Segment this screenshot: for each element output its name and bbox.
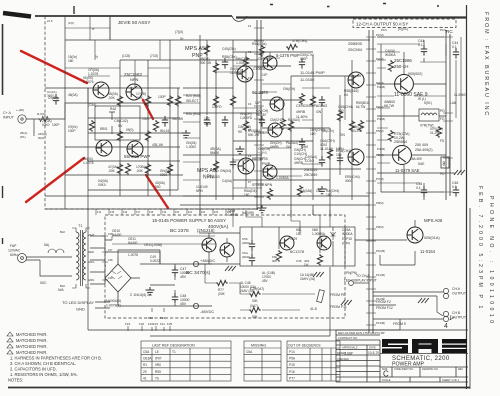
svg-text:C5A: C5A [143, 350, 150, 354]
resistor R35 [267, 188, 272, 200]
svg-text:R1: R1 [143, 363, 147, 367]
board edge connector column P (amp board) [366, 30, 376, 333]
svg-text:P9(M): P9(M) [376, 225, 384, 229]
svg-text:P4(M): P4(M) [376, 105, 384, 109]
wire cap column [174, 264, 176, 306]
svg-text:93,2W: 93,2W [352, 129, 361, 133]
transformer secondary taps [90, 236, 160, 284]
svg-text:11-60%: 11-60% [258, 131, 269, 135]
svg-text:F20: F20 [139, 322, 145, 326]
wire bottom rail y192 [381, 191, 444, 193]
svg-text:MPS A06: MPS A06 [197, 168, 219, 174]
svg-text:C: C [383, 370, 389, 379]
extra wire stubs power box top [233, 210, 330, 227]
svg-text:C+ A: C+ A [3, 111, 11, 115]
transistor Q11 [348, 72, 364, 88]
svg-text:55A708 PWP: 55A708 PWP [124, 154, 150, 159]
svg-text:FD: FD [440, 139, 445, 143]
wire rail y76 [291, 75, 361, 77]
resistor R11 [153, 120, 158, 132]
top tick above border [73, 6, 75, 14]
svg-text:6C 2378: 6C 2378 [252, 90, 269, 95]
svg-text:11-0053: 11-0053 [208, 175, 220, 179]
svg-text:DRAWING NO.: DRAWING NO. [422, 368, 439, 371]
svg-text:F16: F16 [123, 211, 128, 214]
svg-text:SCALE: SCALE [382, 378, 391, 382]
transistor Q2 [126, 84, 142, 100]
svg-text:96-657: 96-657 [256, 113, 267, 117]
svg-text:24AV (2A): 24AV (2A) [240, 289, 254, 293]
svg-text:P8(M): P8(M) [376, 201, 384, 205]
resistor R29 [297, 185, 302, 197]
resistor R32 [175, 95, 180, 107]
wire led display node [354, 282, 369, 284]
capacitor C46 right [453, 186, 459, 197]
resistor R9 [145, 163, 150, 175]
speaker load 8 ohm [441, 157, 449, 168]
svg-text:P14: P14 [289, 350, 295, 354]
svg-text:P1(M): P1(M) [376, 33, 384, 37]
svg-text:L5: L5 [155, 350, 159, 354]
svg-text:(C5A): (C5A) [88, 103, 96, 107]
resistor R39 [213, 62, 218, 74]
svg-text:MPS A06: MPS A06 [424, 218, 443, 223]
svg-text:NOTES:: NOTES: [8, 378, 23, 383]
svg-text:PD: PD [440, 172, 445, 176]
wires taps into supply [105, 240, 160, 278]
svg-text:100P: 100P [158, 95, 167, 99]
extra center rows [216, 52, 345, 188]
capacitor C21 [299, 138, 305, 149]
svg-text:N/A: N/A [58, 288, 64, 292]
svg-text:F18: F18 [149, 211, 154, 214]
svg-text:F14: F14 [97, 211, 102, 214]
board edge connector column F (drive board) [254, 20, 264, 210]
svg-text:1-0085A: 1-0085A [253, 67, 266, 71]
wire to Q17 [355, 220, 415, 265]
resistor R79 horizontal [249, 307, 261, 312]
svg-text:CM(CH2): CM(CH2) [270, 118, 283, 122]
resistor R51 [317, 254, 322, 266]
svg-text:100P: 100P [300, 57, 307, 61]
svg-text:29: 29 [143, 370, 147, 374]
svg-text:CODE IDENT NO.: CODE IDENT NO. [394, 368, 414, 371]
svg-text:68,7W: 68,7W [384, 104, 395, 108]
svg-text:R55: R55 [155, 370, 161, 374]
svg-text:MISSING: MISSING [251, 344, 266, 348]
wire vertical x313 [312, 55, 314, 200]
svg-text:P5A: P5A [289, 357, 296, 361]
wire LED display stub [95, 302, 110, 308]
svg-text:LAST REF DESIGNATION: LAST REF DESIGNATION [152, 344, 195, 348]
svg-text:10-5-70: 10-5-70 [368, 351, 379, 355]
wire -46 rail [118, 298, 212, 306]
resistor R31 [125, 163, 130, 175]
zener D5 [109, 112, 115, 134]
svg-text:+-(40): +-(40) [16, 108, 24, 112]
capacitor C11 [259, 116, 265, 127]
svg-text:(00K: (00K [218, 292, 226, 296]
svg-text:GN: GN [316, 110, 322, 114]
svg-text:R-0(0): R-0(0) [37, 112, 46, 116]
svg-text:F10: F10 [148, 322, 154, 326]
svg-text:005(01A): 005(01A) [424, 236, 440, 240]
wire from f2 [369, 304, 396, 306]
svg-text:CONTRACT NO.: CONTRACT NO. [338, 336, 358, 340]
table: missing [244, 341, 281, 381]
svg-text:CH A: CH A [452, 287, 461, 291]
resistor R10 [167, 163, 172, 175]
svg-text:04: 04 [344, 93, 348, 97]
svg-text:4R(C7x): 4R(C7x) [322, 129, 334, 133]
svg-text:F4: F4 [248, 102, 252, 106]
bridge rectifier BR1 [105, 258, 140, 298]
svg-text:0H5: 0H5 [302, 145, 308, 149]
svg-text:0.0022: 0.0022 [150, 259, 160, 263]
svg-text:4000: 4000 [345, 179, 352, 183]
svg-text:+46VDC: +46VDC [200, 258, 215, 263]
svg-text:CO1O: CO1O [305, 159, 315, 163]
fax edge dash left lower [2, 186, 4, 244]
svg-text:POWER AMP: POWER AMP [392, 362, 425, 368]
capacitor C48 [172, 293, 178, 304]
svg-text:60Hz: 60Hz [10, 253, 18, 257]
svg-text:RC: RC [446, 29, 453, 34]
svg-text:8R01: 8R01 [100, 127, 108, 131]
svg-text:P13(M): P13(M) [376, 321, 385, 325]
resistor R6 [145, 95, 150, 107]
resistor R45 [388, 60, 393, 72]
svg-text:W400A: W400A [385, 53, 396, 57]
svg-text:1. HARNESS IN PARENTHESES ARE: 1. HARNESS IN PARENTHESES ARE FOR CH B. [10, 356, 102, 361]
capacitor C45 [421, 186, 427, 197]
red mark 4 [146, 175, 168, 208]
svg-text:S-1378 NPN: S-1378 NPN [252, 183, 273, 187]
svg-text:GN: GN [286, 145, 291, 149]
svg-text:NPN: NPN [336, 147, 344, 151]
svg-text:0000: 0000 [160, 173, 167, 177]
svg-text:4HRB: 4HRB [270, 145, 279, 149]
svg-text:(0000: (0000 [242, 241, 250, 245]
svg-text:0.1: 0.1 [452, 45, 457, 49]
wire rail y113 [183, 112, 262, 114]
svg-text:0R0: 0R0 [155, 363, 161, 367]
wire vertical x207 [206, 40, 208, 115]
svg-text:R55(C5x): R55(C5x) [252, 42, 267, 46]
svg-text:0r: 0r [92, 27, 95, 31]
resistor R26 [327, 148, 332, 160]
svg-text:900 1W: 900 1W [200, 61, 211, 65]
transistor Q13 output top [395, 75, 414, 94]
svg-text:GND: GND [76, 307, 85, 312]
svg-text:(7)(0): (7)(0) [175, 30, 183, 34]
resistor R12 [89, 120, 94, 132]
svg-text:360V: 360V [47, 94, 54, 98]
svg-text:MATCHED PAIR.: MATCHED PAIR. [16, 338, 47, 343]
svg-text:0529: 0529 [290, 237, 297, 241]
wire vertical x216 [215, 60, 217, 200]
wire rail y161 [88, 160, 180, 162]
wire row y84 [377, 83, 446, 85]
power supply dashed outline [105, 215, 345, 318]
svg-text:CH B: CH B [452, 311, 461, 315]
svg-text:LA8: LA8 [450, 101, 456, 105]
svg-text:1-0083A: 1-0083A [276, 176, 290, 180]
svg-text:3. CH A SHOWN, CH B IDENTICAL.: 3. CH A SHOWN, CH B IDENTICAL. [10, 361, 76, 366]
resistor R33 [259, 45, 264, 57]
svg-text:PT7: PT7 [289, 376, 295, 380]
red mark 2 [143, 100, 153, 119]
resistor R25 [310, 95, 315, 107]
transistor Q15 protection [280, 236, 294, 250]
-46VDC terminal [193, 303, 198, 308]
svg-text:P11(M): P11(M) [376, 273, 385, 277]
svg-text:OUTPUT: OUTPUT [452, 292, 466, 296]
resistor R23 [230, 95, 235, 107]
svg-text:BC 3470(s): BC 3470(s) [186, 270, 211, 276]
svg-text:RA(0A6): RA(0A6) [300, 189, 312, 193]
svg-text:T1: T1 [78, 224, 82, 228]
svg-text:N4400: N4400 [128, 241, 138, 245]
wire drops to bottom rail [88, 205, 400, 336]
svg-text:MATCHED PAIR.: MATCHED PAIR. [16, 350, 47, 355]
svg-text:F11: F11 [160, 322, 165, 326]
svg-text:FROM F2: FROM F2 [376, 300, 391, 304]
svg-text:250-1H: 250-1H [394, 64, 408, 69]
svg-text:C4(0A): C4(0A) [222, 179, 232, 183]
svg-text:900: 900 [155, 185, 161, 189]
svg-text:100P: 100P [52, 123, 59, 127]
regulator transistor Q18 BC2378 [202, 238, 216, 252]
svg-text:2. CAPACITORS IN UFD.: 2. CAPACITORS IN UFD. [10, 367, 57, 372]
wire row y155 [377, 154, 446, 156]
top border line left span [35, 15, 232, 17]
svg-text:00K0: 00K0 [42, 123, 50, 127]
svg-text:C5A: C5A [246, 350, 253, 354]
svg-text:,00K: ,00K [108, 96, 116, 100]
wire row y173 [377, 172, 455, 174]
svg-text:45(0A): 45(0A) [68, 93, 78, 97]
svg-text:GN(CH): GN(CH) [283, 87, 295, 91]
svg-text:45V: 45V [180, 275, 187, 279]
resistor R input series [38, 116, 50, 121]
top-left stub wires [88, 16, 110, 103]
svg-text:P15: P15 [289, 363, 295, 367]
svg-text:SELECT: SELECT [186, 99, 198, 103]
pin row between boards [96, 209, 226, 215]
svg-text:100K: 100K [142, 117, 150, 121]
svg-text:N4(00R): N4(00R) [242, 211, 254, 215]
svg-text:SHEET 1 OF 1: SHEET 1 OF 1 [442, 378, 460, 382]
svg-text:12-CH A OUTPUT 50 A'SY: 12-CH A OUTPUT 50 A'SY [356, 22, 408, 27]
svg-text:F25: F25 [167, 322, 173, 326]
svg-text:P1N: P1N [440, 28, 446, 32]
transistor Q9 [238, 158, 254, 174]
wire input run [26, 103, 65, 136]
transformer T1 [72, 228, 90, 288]
svg-text:REV AS PER ECN 1754 10/4/74 R: REV AS PER ECN 1754 10/4/74 RP [338, 331, 385, 335]
note bullet symbols [7, 332, 13, 354]
svg-text:WHT: WHT [88, 233, 95, 237]
svg-text:ORG: ORG [88, 260, 94, 264]
svg-text:4: 4 [444, 323, 448, 330]
svg-text:45V: 45V [262, 279, 269, 283]
svg-text:25A 409(2): 25A 409(2) [415, 148, 433, 152]
wire top rail y40 [65, 39, 370, 41]
svg-text:OE11(-0056): OE11(-0056) [144, 243, 162, 247]
table: last ref designation [141, 341, 231, 381]
svg-text:R4(0A4): R4(0A4) [288, 118, 300, 122]
svg-text:25C1586: 25C1586 [394, 58, 412, 63]
svg-text:FROM P11: FROM P11 [330, 305, 347, 309]
svg-text:00C: 00C [40, 281, 47, 285]
svg-text:-46VDC: -46VDC [200, 309, 214, 314]
extra density labels [68, 27, 466, 293]
svg-text:(1C8): (1C8) [122, 54, 130, 58]
svg-text:180: 180 [316, 189, 322, 193]
svg-text:DATE: DATE [369, 346, 376, 350]
resistor R38 [243, 56, 248, 68]
transistor Q3 [96, 140, 112, 156]
resistor R24 [288, 120, 293, 132]
svg-text:K1P4: K1P4 [342, 242, 350, 246]
svg-text:CB(C42): CB(C42) [114, 119, 128, 123]
svg-text:GN: GN [340, 133, 345, 137]
svg-text:BLK: BLK [60, 230, 65, 234]
capacitor C25 [230, 158, 236, 169]
capacitor C14 [319, 156, 325, 167]
svg-text:180: 180 [326, 193, 332, 197]
svg-text:01,2W: 01,2W [430, 131, 439, 135]
capacitor C10 [222, 116, 228, 127]
svg-text:P2(M): P2(M) [376, 57, 384, 61]
svg-text:47R(CH4): 47R(CH4) [292, 39, 307, 43]
ground [236, 146, 245, 154]
svg-text:00K0: 00K0 [98, 183, 106, 187]
transformer wire color labels [60, 230, 95, 288]
capacitor C5A [249, 254, 255, 265]
resistor R27 [337, 110, 342, 122]
svg-text:J.Bill: J.Bill [343, 351, 353, 356]
svg-text:R35 (R54): R35 (R54) [186, 112, 201, 116]
wire cap stub [423, 40, 425, 200]
ground mid bottom [341, 300, 352, 305]
svg-text:BLK: BLK [60, 284, 65, 288]
transistor Q4 [127, 141, 143, 157]
svg-text:1-00M0A: 1-00M0A [312, 232, 326, 236]
svg-text:0.1: 0.1 [418, 43, 423, 47]
SAE logo [382, 339, 467, 353]
svg-text:C45(C5x): C45(C5x) [222, 47, 236, 51]
resistor R22 [213, 160, 218, 172]
wire vertical x88 [87, 88, 89, 209]
svg-text:1-0000: 1-0000 [186, 145, 196, 149]
svg-text:NPN: NPN [130, 77, 139, 82]
resistor R5 [117, 95, 122, 107]
thermal breaker [317, 290, 325, 303]
svg-text:F1: F1 [248, 24, 252, 28]
resistor R7 [167, 95, 172, 107]
svg-text:OUT OF SEQUENCE: OUT OF SEQUENCE [288, 344, 321, 348]
capacitor C12 [337, 154, 343, 165]
wire rail y169 [262, 168, 361, 170]
red mark 1 [21, 51, 87, 83]
wire rail y141 [233, 140, 313, 142]
svg-text:F15: F15 [110, 211, 115, 214]
transistor Q1 [93, 82, 109, 98]
inductor L1 damper box [419, 109, 439, 121]
svg-text:FROM F12: FROM F12 [376, 306, 393, 310]
wire gnd mid [150, 284, 175, 286]
svg-text:,00K: ,00K [136, 169, 144, 173]
svg-text:435,1W: 435,1W [152, 143, 163, 147]
wire ch b output [373, 312, 443, 319]
transistor Q17 MPS A06 [407, 227, 423, 243]
AC input jack [18, 254, 27, 263]
svg-text:150: 150 [296, 232, 302, 236]
svg-text:1N4004(4): 1N4004(4) [104, 299, 121, 303]
svg-text:00)0: 00)0 [38, 136, 44, 140]
wire vertical x381 [380, 44, 382, 192]
resistor R78 horizontal [249, 291, 261, 296]
svg-text:41: 41 [143, 376, 147, 380]
output board right edge pins [443, 30, 453, 200]
protection circuit box [240, 227, 355, 266]
svg-text:(0)(0C): (0)(0C) [398, 27, 408, 31]
svg-text:25D515: 25D515 [304, 168, 317, 172]
svg-text:11-0154: 11-0154 [420, 249, 436, 254]
transistor Q6 [263, 56, 277, 70]
wire vertical x246 [245, 52, 247, 188]
red mark 3 [26, 158, 84, 202]
svg-text:CENCING PAGING: CENCING PAGING [296, 104, 327, 108]
wire rail y100 [262, 99, 302, 101]
svg-text:1-0076: 1-0076 [83, 80, 94, 84]
bottom pin labels F12 F13 F10 F11 [148, 316, 166, 326]
wire rail y190 [88, 189, 178, 191]
wire resistor runs [205, 264, 315, 310]
svg-text:1. RESISTORS IN OHMS, 1/4W, 5%: 1. RESISTORS IN OHMS, 1/4W, 5%. [10, 372, 78, 377]
svg-text:250 409: 250 409 [415, 143, 428, 147]
wire bottom long rail [88, 330, 400, 336]
svg-text:N4400: N4400 [112, 233, 122, 237]
capacitor C22 [319, 96, 325, 107]
svg-text:F19: F19 [162, 211, 167, 214]
svg-text:56K/6: 56K/6 [210, 151, 219, 155]
wire +46 rail [118, 250, 212, 264]
wire vertical x340 [339, 95, 341, 175]
extra output section rows [377, 37, 461, 183]
transistor Q16 protection [317, 236, 331, 250]
wire vertical x178 [177, 88, 179, 190]
wire vertical x233 [232, 40, 234, 200]
wire rail y209 bottom [45, 208, 258, 210]
table: out of sequence [287, 341, 340, 381]
svg-text:R55(C5x): R55(C5x) [222, 55, 237, 59]
svg-text:(0040: (0040 [242, 255, 250, 259]
resistor R46 [388, 130, 393, 142]
transistor Q8 [268, 123, 282, 137]
svg-text:FROM : FAX BUREAU INC: FROM : FAX BUREAU INC [483, 12, 489, 117]
svg-text:F29: F29 [108, 276, 113, 280]
svg-text:SAE: SAE [418, 162, 424, 166]
bottom border [8, 387, 470, 389]
wire sec bus vertical [104, 236, 106, 284]
capacitor C41 [421, 45, 427, 56]
notes block [8, 332, 102, 383]
top-left tick labels [47, 19, 95, 31]
svg-text:P10(M): P10(M) [376, 249, 385, 253]
